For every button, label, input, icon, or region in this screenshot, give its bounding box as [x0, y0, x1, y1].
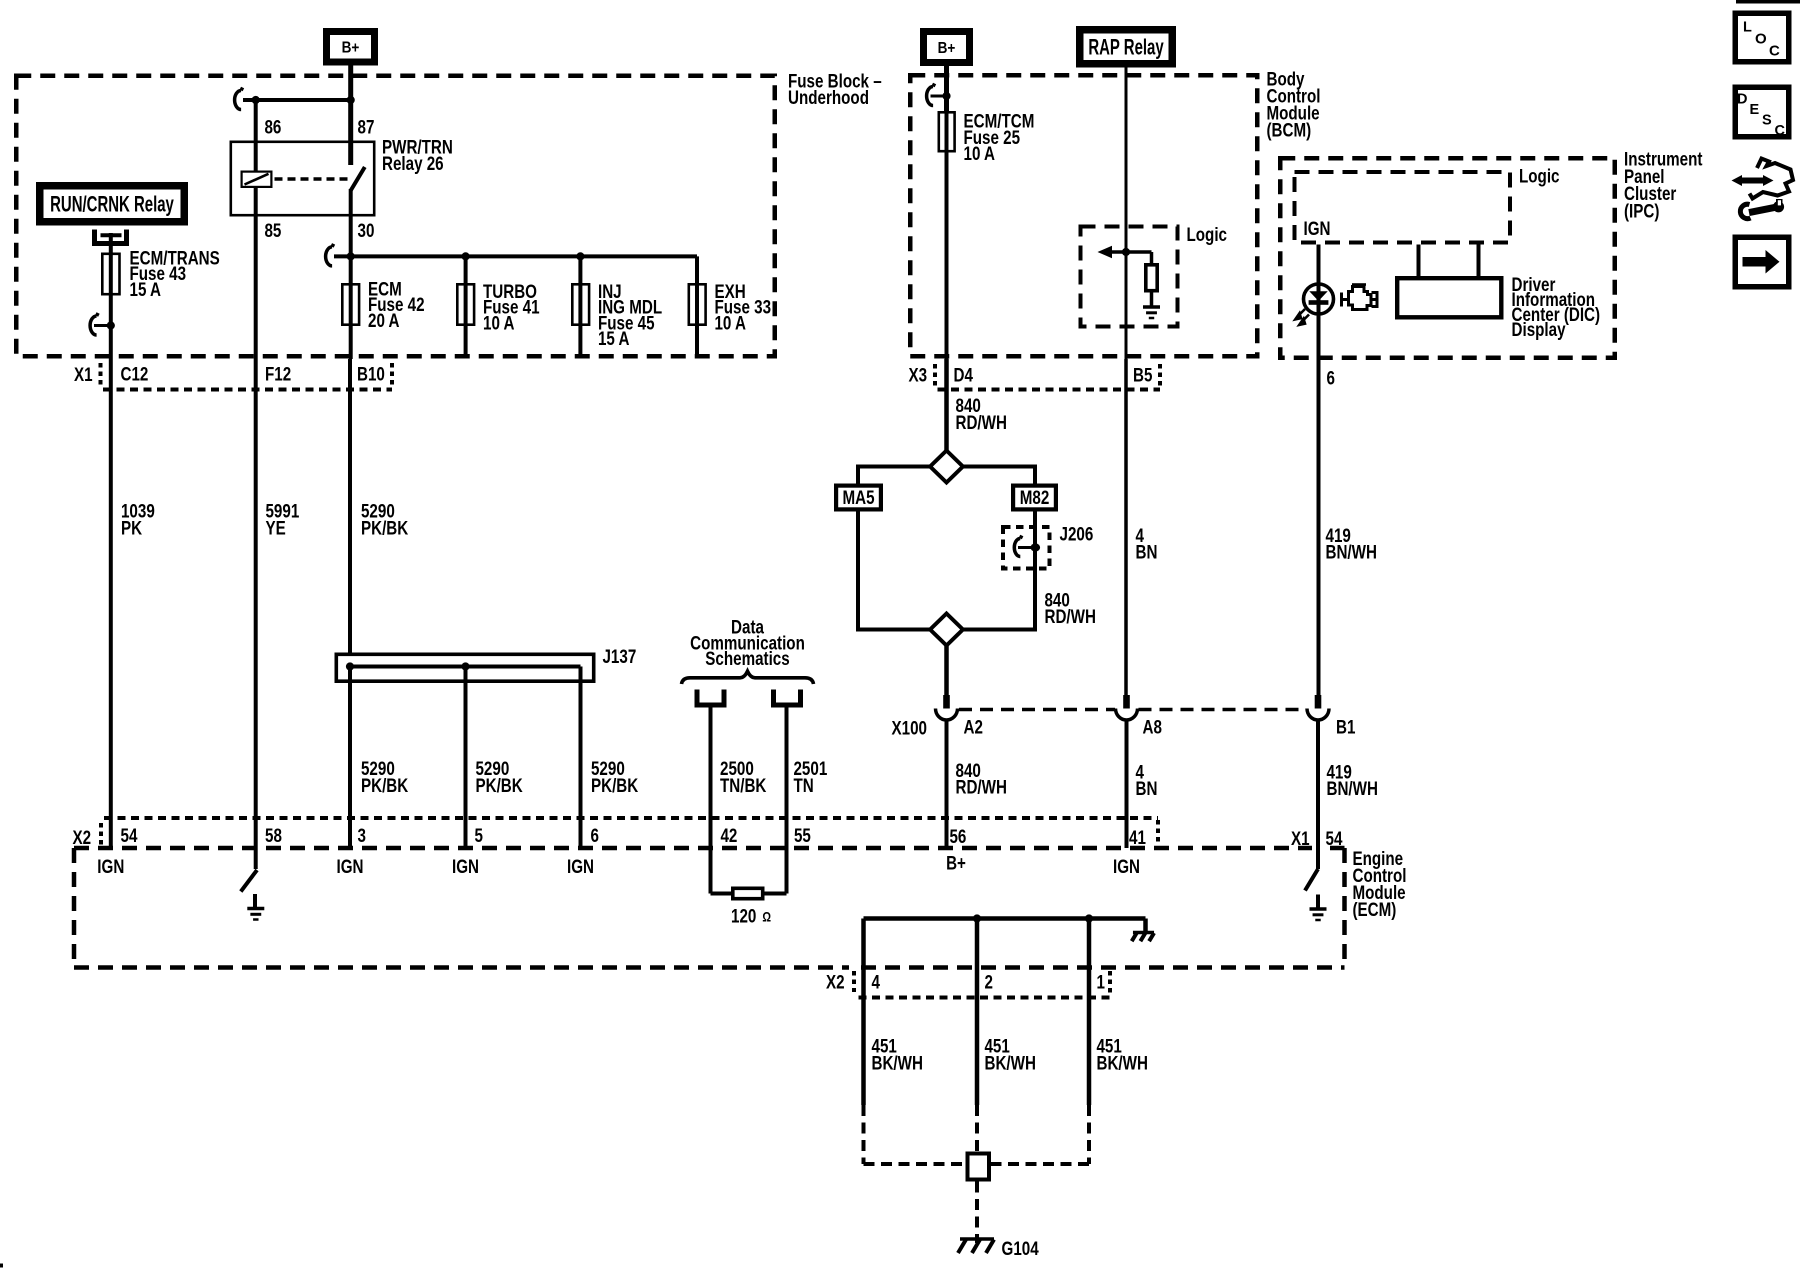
svg-text:B5: B5: [1133, 364, 1153, 386]
svg-text:2: 2: [984, 971, 992, 993]
brace for data communication wires: [682, 671, 814, 684]
wire B+ to fuse 25: [944, 66, 949, 111]
svg-text:IGN: IGN: [567, 855, 594, 877]
corner speck: [0, 1264, 3, 1268]
svg-text:BN: BN: [1136, 777, 1158, 799]
svg-text:RAP Relay: RAP Relay: [1088, 34, 1164, 59]
svg-text:Display: Display: [1512, 318, 1566, 340]
svg-text:X2: X2: [826, 971, 845, 993]
svg-text:42: 42: [720, 824, 737, 846]
svg-text:86: 86: [264, 116, 281, 138]
svg-text:A2: A2: [964, 716, 983, 738]
svg-text:Schematics: Schematics: [705, 648, 789, 670]
power symbol B+ (BCM feed): [924, 32, 970, 63]
svg-text:RD/WH: RD/WH: [956, 776, 1007, 798]
svg-text:54: 54: [120, 824, 137, 846]
svg-text:X1: X1: [74, 363, 93, 385]
svg-text:TN/BK: TN/BK: [720, 774, 767, 796]
svg-text:RD/WH: RD/WH: [1044, 605, 1095, 627]
svg-text:MA5: MA5: [842, 486, 874, 508]
svg-text:RUN/CRNK Relay: RUN/CRNK Relay: [50, 191, 174, 216]
svg-text:87: 87: [358, 116, 375, 138]
indicator LED: [1304, 284, 1334, 314]
svg-text:PK/BK: PK/BK: [591, 774, 639, 796]
svg-text:(BCM): (BCM): [1266, 119, 1311, 141]
wire 5290 to pin 3: [348, 667, 352, 849]
wire 1039 PK: [109, 359, 113, 848]
relay K26 contact blade: [351, 167, 365, 191]
fuse F41 TURBO 10A: [464, 256, 468, 358]
relay K26 coil: [242, 172, 272, 187]
svg-text:RD/WH: RD/WH: [956, 411, 1007, 433]
svg-text:BK/WH: BK/WH: [984, 1052, 1035, 1074]
svg-text:B1: B1: [1336, 716, 1356, 738]
wire pin 2 (451): [975, 919, 980, 1106]
terminating resistor 120 ohm: [711, 892, 733, 896]
svg-text:O: O: [1755, 31, 1767, 48]
svg-text:30: 30: [358, 219, 375, 241]
hook connector + junction at fuse 43 output: [90, 316, 96, 335]
connector X2 separator right: [1156, 820, 1160, 845]
junction bus/fuse41: [462, 252, 470, 260]
connector X100 terminal B1: [1315, 695, 1322, 709]
ground G104 symbol: [960, 1237, 994, 1241]
wire relay pin 30 down: [349, 189, 353, 359]
svg-text:Underhood: Underhood: [788, 86, 869, 108]
DIC display box stubs: [1417, 245, 1421, 277]
hook connector at fuse 25 input: [927, 87, 933, 106]
junction node pin 86 feed: [252, 96, 260, 104]
engine (MIL) icon: [1342, 293, 1348, 307]
power symbol B+ (fuse block feed): [327, 32, 375, 63]
off-page connector cup (2500): [697, 690, 724, 706]
svg-text:58: 58: [265, 824, 282, 846]
fuse block terminal cup (RUN/CRNK relay output): [95, 230, 127, 244]
Driver Information Center display box: [1397, 278, 1501, 317]
connector X2 pin row line: [104, 816, 1158, 820]
svg-text:Logic: Logic: [1186, 223, 1227, 245]
svg-text:G104: G104: [1002, 1237, 1040, 1259]
svg-text:B+: B+: [946, 852, 966, 874]
junction ground bus pin 1: [1085, 914, 1093, 922]
wire IGN through indicator: [1317, 245, 1321, 697]
wire 5290 PK/BK (B10): [348, 359, 352, 654]
svg-text:6: 6: [1326, 367, 1334, 389]
dashed wire pin4 to splice: [862, 1105, 866, 1164]
dashed wire pin1 to splice: [1087, 1105, 1091, 1164]
wire pin 1 (451): [1087, 919, 1092, 1106]
Body Control Module box: [910, 75, 1257, 356]
ground symbol pin 54 (X1): [1316, 895, 1320, 909]
svg-text:PK: PK: [121, 517, 143, 539]
wire splice to X100 A2: [944, 646, 949, 697]
hook connector at relay coil feed: [235, 91, 241, 110]
fuse F43 ECM/TRANS 15A: [109, 253, 113, 360]
connector X2 bottom separator left: [852, 971, 856, 992]
svg-text:20 A: 20 A: [368, 309, 400, 331]
wire pin 4 (451): [861, 919, 866, 1106]
svg-text:PK/BK: PK/BK: [361, 517, 409, 539]
svg-text:IGN: IGN: [336, 855, 363, 877]
Fuse Block - Underhood module box: [16, 76, 775, 357]
icon LOC box: [1735, 13, 1789, 62]
wire to splice M82: [963, 465, 1035, 469]
relay K26 PWR/TRN top wire: [243, 98, 351, 102]
svg-text:B+: B+: [938, 40, 956, 57]
LED light rays: [1295, 309, 1305, 319]
splice M82: [1013, 486, 1056, 510]
splice MA5: [836, 486, 881, 510]
svg-text:C: C: [1769, 43, 1780, 60]
svg-text:IGN: IGN: [1304, 217, 1331, 239]
splice diamond (840 lower): [930, 614, 963, 646]
wire 2501 TN: [785, 708, 789, 894]
wire 5290 to pin 6: [579, 683, 583, 848]
connector X1 pin row line: [103, 388, 392, 392]
wire relay pin 85 to F12: [254, 188, 258, 359]
junction ground bus pin 2: [973, 914, 981, 922]
wire 5290 to pin 5: [464, 667, 468, 849]
junction logic/RAP wire: [1122, 248, 1130, 256]
relay K26 box: [231, 142, 374, 215]
wire 419 BN/WH to pin 54: [1316, 719, 1320, 869]
junction node pin 87 feed: [347, 96, 355, 104]
off-page connector cup (2501): [774, 690, 801, 706]
svg-text:85: 85: [264, 219, 281, 241]
connector X100 row line: [959, 708, 1115, 712]
BCM logic box: [1081, 227, 1178, 327]
svg-text:D4: D4: [954, 364, 974, 386]
Engine Control Module box: [74, 846, 1312, 851]
connector X3 separator: [933, 364, 937, 387]
svg-text:PK/BK: PK/BK: [361, 774, 409, 796]
icon DESC box: [1735, 87, 1789, 137]
splice diamond (840 upper): [930, 451, 963, 483]
svg-text:B10: B10: [357, 363, 385, 385]
svg-text:E: E: [1750, 102, 1760, 118]
svg-text:J137: J137: [602, 645, 636, 667]
junction bus/fuse42: [347, 252, 355, 260]
svg-text:BN/WH: BN/WH: [1326, 777, 1377, 799]
wire M82 through J206: [1033, 512, 1037, 630]
icon navigation arrows and wrench: [1739, 178, 1766, 184]
fuse F42 ECM 20A: [342, 284, 359, 324]
RAP Relay label box: [1080, 30, 1173, 64]
wire 840 RD/WH to pin 56: [945, 719, 949, 848]
dashed wire splice to G104: [975, 1182, 979, 1244]
svg-text:55: 55: [794, 824, 811, 846]
svg-text:F12: F12: [265, 363, 291, 385]
splice pack J137: [336, 654, 593, 681]
Instrument Panel Cluster box: [1280, 158, 1615, 358]
svg-text:10 A: 10 A: [964, 143, 996, 165]
svg-text:B+: B+: [342, 40, 360, 57]
icon forward arrow box: [1735, 237, 1789, 287]
svg-text:D: D: [1737, 92, 1747, 108]
wire 4 BN to pin 41: [1125, 719, 1129, 848]
svg-text:BK/WH: BK/WH: [1096, 1052, 1147, 1074]
svg-text:C: C: [1775, 123, 1786, 139]
svg-text:X100: X100: [892, 717, 927, 739]
in-line connector J206: [1003, 527, 1050, 569]
svg-text:3: 3: [358, 824, 366, 846]
svg-text:4: 4: [872, 971, 881, 993]
svg-text:S: S: [1762, 113, 1772, 129]
fuse F25 ECM/TCM 10A: [945, 111, 949, 359]
svg-text:Ω: Ω: [762, 909, 771, 924]
connector X2 separator: [99, 823, 103, 848]
svg-text:IGN: IGN: [452, 855, 479, 877]
dashed wire pin2 to splice: [975, 1105, 979, 1152]
wire to relay pin 86: [254, 100, 258, 171]
svg-text:C12: C12: [120, 363, 148, 385]
svg-text:A8: A8: [1142, 716, 1162, 738]
svg-text:L: L: [1743, 20, 1752, 36]
svg-text:TN: TN: [794, 774, 814, 796]
wire to splice MA5: [858, 465, 930, 469]
svg-text:5: 5: [474, 824, 483, 846]
svg-text:BN: BN: [1136, 541, 1158, 563]
ground symbol (BCM logic): [1150, 293, 1154, 308]
svg-text:(ECM): (ECM): [1352, 898, 1396, 920]
svg-text:X2: X2: [72, 826, 91, 848]
svg-text:56: 56: [950, 825, 967, 847]
wire RAP relay to B5: [1125, 68, 1128, 360]
switch to ground pin 58: [241, 870, 257, 892]
svg-text:(IPC): (IPC): [1624, 200, 1659, 222]
connector X100 terminal A8: [1123, 695, 1130, 709]
wire 840 RD/WH from D4: [944, 359, 949, 452]
fuse F33 EXH 10A: [695, 256, 699, 358]
svg-text:BN/WH: BN/WH: [1326, 541, 1377, 563]
switch to ground pin 54 (X1): [1316, 848, 1320, 869]
svg-text:IGN: IGN: [97, 855, 124, 877]
svg-text:PK/BK: PK/BK: [476, 774, 524, 796]
top edge mark: [1736, 0, 1800, 4]
logic sense line with arrow: [1109, 250, 1152, 254]
junction bus/fuse45: [576, 252, 584, 260]
svg-text:15 A: 15 A: [598, 327, 630, 349]
logic pull-down resistor: [1150, 252, 1154, 263]
svg-text:6: 6: [590, 824, 598, 846]
connector X100 terminal A2: [943, 695, 950, 709]
wire 5991 YE: [254, 359, 258, 869]
relay K26 coil-contact link: [275, 177, 349, 181]
wire 4 BN from B5 to A8: [1124, 359, 1128, 695]
chassis ground symbol (ECM internal): [1143, 919, 1148, 932]
svg-text:YE: YE: [266, 517, 286, 539]
fuse F45 INJ IGN MDL 15A: [578, 256, 582, 358]
svg-text:X3: X3: [908, 364, 927, 386]
connector X3 separator right: [1158, 364, 1162, 387]
hook connector at bus left end: [326, 247, 332, 266]
svg-text:IGN: IGN: [1113, 855, 1140, 877]
svg-text:1: 1: [1096, 971, 1105, 993]
connector X1 separator: [99, 363, 103, 386]
wire B+ to relay pin 87: [348, 66, 353, 166]
svg-text:41: 41: [1129, 826, 1146, 848]
svg-text:10 A: 10 A: [714, 312, 746, 334]
svg-text:Relay 26: Relay 26: [382, 152, 444, 174]
ground symbol pin 58: [253, 894, 257, 909]
connector X1 separator right: [390, 363, 394, 386]
wire 2500 TN/BK: [709, 708, 713, 894]
svg-text:Logic: Logic: [1519, 165, 1560, 187]
svg-text:BK/WH: BK/WH: [872, 1052, 923, 1074]
RUN/CRNK Relay label box: [40, 186, 185, 222]
svg-text:M82: M82: [1020, 486, 1050, 508]
IPC logic box: [1295, 172, 1511, 243]
svg-text:10 A: 10 A: [483, 312, 515, 334]
wire MA5 to lower splice diamond: [856, 512, 860, 632]
svg-text:15 A: 15 A: [130, 278, 162, 300]
ground splice block: [968, 1154, 990, 1180]
ECM internal ground bus: [864, 916, 1146, 921]
connector X3 pin row line: [938, 388, 1161, 392]
svg-text:J206: J206: [1060, 523, 1094, 545]
connector X2 bottom separator right: [1108, 971, 1112, 996]
connector X2 bottom pin row line: [859, 996, 1111, 1000]
fused output bus from pin 30: [334, 254, 697, 258]
wire RUN/CRNK to fuse 43: [109, 233, 113, 253]
svg-text:120: 120: [731, 905, 756, 927]
